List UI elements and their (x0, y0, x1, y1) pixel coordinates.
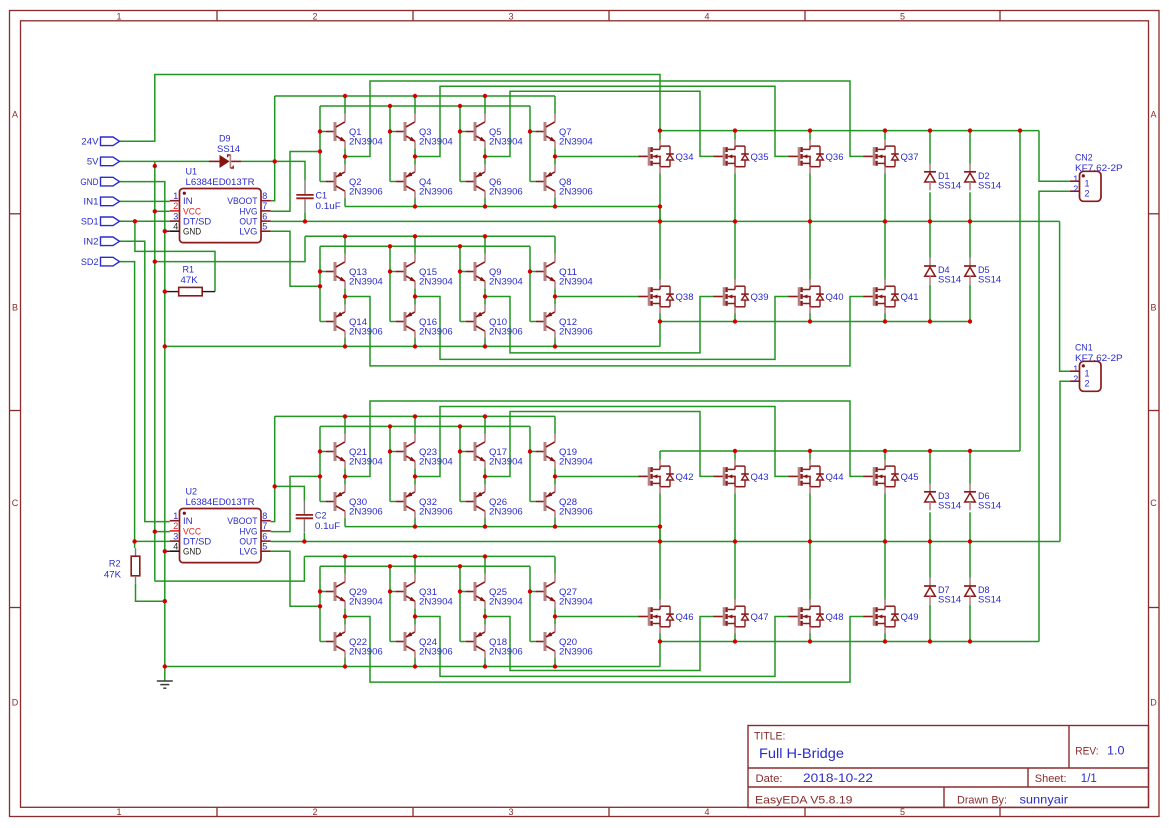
svg-text:2N3904: 2N3904 (489, 137, 523, 147)
wire net LVG-B and group4 base rail (271, 551, 530, 641)
wire net 5V / VBOOT-A (119, 96, 555, 581)
svg-text:A: A (12, 110, 18, 120)
transistor Q42 (N-MOSFET) (639, 459, 694, 493)
transistor Q37 (N-MOSFET) (864, 139, 919, 173)
svg-text:Q1: Q1 (349, 127, 361, 137)
svg-text:Q23: Q23 (419, 447, 437, 457)
svg-text:Q21: Q21 (349, 447, 367, 457)
transistor Q45 (N-MOSFET) (864, 459, 919, 493)
IC U1 L6384ED013TR (170, 167, 271, 243)
svg-text:Q38: Q38 (676, 292, 694, 302)
svg-text:DT/SD: DT/SD (183, 217, 212, 227)
transistor Q32 (PNP 2N3906) (390, 485, 453, 519)
transistor Q28 (PNP 2N3906) (530, 485, 593, 519)
transistor Q21 (NPN 2N3904) (320, 434, 383, 469)
svg-text:Q10: Q10 (489, 317, 507, 327)
svg-text:Q46: Q46 (676, 612, 694, 622)
svg-text:Q27: Q27 (559, 587, 577, 597)
wire net HVG-B and group3 base rail (271, 426, 530, 531)
capacitor C1 0.1uF (296, 180, 341, 212)
svg-text:SS14: SS14 (938, 595, 961, 605)
svg-text:Q13: Q13 (349, 267, 367, 277)
svg-text:D: D (1150, 698, 1157, 708)
transistor Q16 (PNP 2N3906) (390, 305, 453, 339)
transistor Q25 (NPN 2N3904) (460, 574, 523, 609)
svg-text:OUT: OUT (239, 537, 258, 547)
svg-text:SS14: SS14 (217, 144, 240, 154)
transistor Q23 (NPN 2N3904) (390, 434, 453, 469)
svg-text:B: B (12, 303, 18, 313)
transistor Q3 (NPN 2N3904) (390, 114, 453, 149)
svg-text:SD2: SD2 (81, 257, 99, 267)
svg-text:Q5: Q5 (489, 127, 501, 137)
svg-text:Q12: Q12 (559, 317, 577, 327)
svg-text:HVG: HVG (239, 526, 257, 536)
svg-text:2N3904: 2N3904 (349, 457, 383, 467)
svg-text:4: 4 (173, 541, 178, 551)
svg-text:SS14: SS14 (938, 500, 961, 510)
svg-text:sunnyair: sunnyair (1020, 793, 1069, 807)
wire net gate drives bank C (345, 401, 864, 477)
svg-text:4: 4 (704, 11, 709, 21)
svg-text:1: 1 (1073, 174, 1078, 184)
transistor Q46 (N-MOSFET) (639, 600, 694, 634)
svg-text:Q16: Q16 (419, 317, 437, 327)
svg-text:2N3904: 2N3904 (489, 597, 523, 607)
svg-text:IN: IN (183, 196, 193, 206)
transistor Q4 (PNP 2N3906) (390, 165, 453, 199)
svg-text:Q45: Q45 (901, 472, 919, 482)
svg-text:Q48: Q48 (826, 612, 844, 622)
svg-text:OUT: OUT (239, 217, 258, 227)
svg-text:2N3906: 2N3906 (489, 647, 523, 657)
connector CN1 KF7.62-2P (1070, 343, 1123, 392)
ground symbol (157, 667, 173, 689)
svg-text:Q39: Q39 (751, 292, 769, 302)
svg-text:Q20: Q20 (559, 637, 577, 647)
transistor Q17 (NPN 2N3904) (460, 434, 523, 469)
svg-text:3: 3 (508, 11, 513, 21)
transistor Q20 (PNP 2N3906) (530, 625, 593, 659)
svg-text:Q34: Q34 (676, 152, 694, 162)
svg-text:SS14: SS14 (978, 500, 1001, 510)
svg-text:Q3: Q3 (419, 127, 431, 137)
svg-text:Sheet:: Sheet: (1035, 773, 1067, 785)
svg-text:Q4: Q4 (419, 177, 431, 187)
transistor Q43 (N-MOSFET) (714, 459, 769, 493)
svg-text:1: 1 (173, 191, 178, 201)
transistor Q7 (NPN 2N3904) (530, 114, 593, 149)
svg-text:2N3904: 2N3904 (489, 457, 523, 467)
svg-text:Q14: Q14 (349, 317, 367, 327)
svg-text:2N3904: 2N3904 (349, 277, 383, 287)
svg-text:2N3906: 2N3906 (419, 507, 453, 517)
svg-text:2N3906: 2N3906 (349, 507, 383, 517)
svg-text:L6384ED013TR: L6384ED013TR (186, 177, 256, 187)
transistor Q41 (N-MOSFET) (864, 280, 919, 314)
svg-text:7: 7 (262, 521, 267, 531)
svg-text:47K: 47K (181, 275, 198, 285)
svg-text:D9: D9 (219, 134, 231, 144)
capacitor C2 0.1uF (296, 500, 341, 532)
svg-text:Q40: Q40 (826, 292, 844, 302)
svg-text:47K: 47K (104, 570, 121, 580)
input flag 24V (81, 137, 119, 147)
transistor Q29 (NPN 2N3904) (320, 574, 383, 609)
svg-text:U2: U2 (186, 487, 198, 497)
svg-text:D6: D6 (978, 491, 990, 501)
wire net GND (119, 182, 1069, 667)
transistor Q35 (N-MOSFET) (714, 139, 769, 173)
svg-text:CN2: CN2 (1075, 153, 1093, 163)
svg-text:2N3906: 2N3906 (489, 327, 523, 337)
svg-text:IN2: IN2 (83, 237, 98, 247)
svg-text:Q7: Q7 (559, 127, 571, 137)
svg-text:7: 7 (262, 201, 267, 211)
svg-text:2N3906: 2N3906 (559, 507, 593, 517)
svg-text:0.1uF: 0.1uF (316, 201, 342, 211)
svg-text:Q44: Q44 (826, 472, 844, 482)
svg-text:3: 3 (173, 531, 178, 541)
wire net 24V (119, 75, 1069, 484)
svg-text:B: B (1150, 303, 1156, 313)
svg-text:TITLE:: TITLE: (754, 731, 785, 743)
diode D8 (SS14 schottky) (964, 578, 1001, 605)
transistor Q38 (N-MOSFET) (639, 280, 694, 314)
svg-text:SS14: SS14 (978, 595, 1001, 605)
svg-text:2N3906: 2N3906 (349, 647, 383, 657)
wire net HVG-A and group1 base rail (271, 106, 530, 211)
svg-text:R2: R2 (109, 559, 121, 569)
diode D1 (SS14 schottky) (924, 164, 961, 191)
svg-text:1: 1 (116, 11, 121, 21)
svg-text:2N3906: 2N3906 (489, 507, 523, 517)
transistor Q14 (PNP 2N3906) (320, 305, 383, 339)
svg-text:EasyEDA V5.8.19: EasyEDA V5.8.19 (755, 794, 853, 806)
svg-text:5: 5 (262, 541, 267, 551)
svg-text:D8: D8 (978, 585, 990, 595)
diode D9 (SS14 schottky) (209, 134, 241, 168)
transistor Q12 (PNP 2N3906) (530, 305, 593, 339)
wire net IN2 (119, 241, 169, 521)
svg-text:3: 3 (508, 807, 513, 817)
svg-text:Date:: Date: (756, 773, 783, 785)
svg-text:Q17: Q17 (489, 447, 507, 457)
svg-text:2N3904: 2N3904 (419, 277, 453, 287)
title block (748, 726, 1149, 808)
transistor Q34 (N-MOSFET) (639, 139, 694, 173)
svg-text:SD1: SD1 (81, 217, 99, 227)
svg-text:2018-10-22: 2018-10-22 (803, 773, 873, 785)
transistor Q36 (N-MOSFET) (789, 139, 844, 173)
transistor Q1 (NPN 2N3904) (320, 114, 383, 149)
wire net VBOOT-B (271, 416, 555, 541)
input flag SD1 (81, 217, 120, 227)
svg-text:LVG: LVG (239, 547, 257, 557)
wire net gate drives bank B (345, 297, 864, 366)
svg-text:D4: D4 (938, 265, 950, 275)
svg-text:2N3906: 2N3906 (559, 327, 593, 337)
svg-text:Q15: Q15 (419, 267, 437, 277)
svg-text:5: 5 (900, 11, 905, 21)
transistor Q30 (PNP 2N3906) (320, 485, 383, 519)
svg-text:2: 2 (173, 521, 178, 531)
svg-text:2: 2 (1073, 184, 1078, 194)
svg-text:2N3906: 2N3906 (419, 187, 453, 197)
svg-text:2: 2 (312, 807, 317, 817)
svg-text:Q32: Q32 (419, 497, 437, 507)
svg-text:Q31: Q31 (419, 587, 437, 597)
svg-text:Q37: Q37 (901, 152, 919, 162)
svg-text:Q8: Q8 (559, 177, 571, 187)
svg-text:GND: GND (183, 547, 202, 557)
svg-text:Q30: Q30 (349, 497, 367, 507)
svg-text:D1: D1 (938, 171, 950, 181)
wire net OUT-A (phase A) (271, 173, 1070, 371)
transistor Q6 (PNP 2N3906) (460, 165, 523, 199)
svg-text:2N3904: 2N3904 (419, 597, 453, 607)
svg-text:Q19: Q19 (559, 447, 577, 457)
transistor Q18 (PNP 2N3906) (460, 625, 523, 659)
svg-text:2N3904: 2N3904 (349, 137, 383, 147)
svg-text:3: 3 (173, 211, 178, 221)
transistor Q13 (NPN 2N3904) (320, 254, 383, 289)
transistor Q49 (N-MOSFET) (864, 600, 919, 634)
svg-text:2: 2 (1073, 374, 1078, 384)
svg-text:2N3906: 2N3906 (559, 647, 593, 657)
diode D5 (SS14 schottky) (964, 258, 1001, 285)
diode D3 (SS14 schottky) (924, 484, 961, 511)
svg-text:HVG: HVG (239, 206, 257, 216)
svg-text:Q28: Q28 (559, 497, 577, 507)
svg-text:DT/SD: DT/SD (183, 537, 212, 547)
svg-text:SS14: SS14 (978, 275, 1001, 285)
svg-text:Q35: Q35 (751, 152, 769, 162)
transistor Q9 (NPN 2N3904) (460, 254, 523, 289)
svg-text:2N3904: 2N3904 (489, 277, 523, 287)
diode D4 (SS14 schottky) (924, 258, 961, 285)
svg-text:IN1: IN1 (83, 197, 98, 207)
svg-text:6: 6 (262, 211, 267, 221)
svg-text:5: 5 (262, 221, 267, 231)
svg-text:CN1: CN1 (1075, 343, 1093, 353)
transistor Q15 (NPN 2N3904) (390, 254, 453, 289)
svg-text:1: 1 (1085, 369, 1090, 379)
transistor Q47 (N-MOSFET) (714, 600, 769, 634)
connector CN2 KF7.62-2P (1070, 153, 1123, 202)
wire net SD1 with R1 branch (119, 221, 215, 291)
IC U2 L6384ED013TR (170, 487, 271, 563)
wire net gate drives bank A (345, 81, 864, 157)
svg-text:Q36: Q36 (826, 152, 844, 162)
transistor Q5 (NPN 2N3904) (460, 114, 523, 149)
svg-text:2N3904: 2N3904 (349, 597, 383, 607)
svg-text:2N3904: 2N3904 (419, 457, 453, 467)
wire net gate drives bank D (345, 617, 864, 683)
svg-text:1: 1 (116, 807, 121, 817)
svg-text:SS14: SS14 (938, 275, 961, 285)
svg-text:C1: C1 (316, 191, 328, 201)
svg-text:A: A (1150, 110, 1156, 120)
input flag IN1 (83, 197, 119, 207)
transistor Q19 (NPN 2N3904) (530, 434, 593, 469)
svg-text:REV:: REV: (1075, 745, 1098, 757)
svg-text:D3: D3 (938, 491, 950, 501)
svg-text:R1: R1 (183, 265, 195, 275)
svg-text:VCC: VCC (183, 526, 202, 536)
diode D7 (SS14 schottky) (924, 578, 961, 605)
svg-text:SS14: SS14 (978, 180, 1001, 190)
resistor R1 47K (165, 265, 215, 296)
svg-text:U1: U1 (186, 167, 198, 177)
svg-text:2: 2 (1085, 379, 1090, 389)
input flag IN2 (83, 237, 119, 247)
svg-text:VBOOT: VBOOT (227, 196, 258, 206)
transistor Q2 (PNP 2N3906) (320, 165, 383, 199)
svg-text:2N3906: 2N3906 (489, 187, 523, 197)
svg-text:Q24: Q24 (419, 637, 437, 647)
input flag GND (80, 177, 119, 187)
svg-text:VCC: VCC (183, 206, 202, 216)
transistor Q48 (N-MOSFET) (789, 600, 844, 634)
transistor Q11 (NPN 2N3904) (530, 254, 593, 289)
svg-text:D7: D7 (938, 585, 950, 595)
svg-text:GND: GND (183, 227, 202, 237)
transistor Q39 (N-MOSFET) (714, 280, 769, 314)
input flag 5V (87, 157, 120, 167)
svg-text:8: 8 (262, 191, 267, 201)
svg-text:2N3904: 2N3904 (559, 277, 593, 287)
transistor Q31 (NPN 2N3904) (390, 574, 453, 609)
svg-text:1: 1 (173, 511, 178, 521)
svg-text:2: 2 (173, 201, 178, 211)
svg-text:0.1uF: 0.1uF (315, 521, 341, 531)
transistor Q10 (PNP 2N3906) (460, 305, 523, 339)
svg-text:Q29: Q29 (349, 587, 367, 597)
svg-text:2N3906: 2N3906 (349, 187, 383, 197)
svg-text:24V: 24V (81, 137, 98, 147)
wire net OUT-B (phase B) (271, 381, 1070, 599)
svg-text:C2: C2 (315, 511, 327, 521)
svg-text:Q25: Q25 (489, 587, 507, 597)
svg-text:L6384ED013TR: L6384ED013TR (186, 497, 256, 507)
svg-text:1: 1 (1085, 179, 1090, 189)
diode D2 (SS14 schottky) (964, 164, 1001, 191)
transistor Q40 (N-MOSFET) (789, 280, 844, 314)
svg-text:Q43: Q43 (751, 472, 769, 482)
transistor Q22 (PNP 2N3906) (320, 625, 383, 659)
svg-text:Q6: Q6 (489, 177, 501, 187)
svg-text:2: 2 (1085, 189, 1090, 199)
diode D6 (SS14 schottky) (964, 484, 1001, 511)
svg-text:Q26: Q26 (489, 497, 507, 507)
svg-text:2N3904: 2N3904 (419, 137, 453, 147)
svg-text:2N3904: 2N3904 (559, 457, 593, 467)
svg-text:Q41: Q41 (901, 292, 919, 302)
svg-text:2N3906: 2N3906 (559, 187, 593, 197)
svg-text:2N3906: 2N3906 (419, 327, 453, 337)
svg-text:1.0: 1.0 (1107, 746, 1125, 758)
svg-text:Full H-Bridge: Full H-Bridge (759, 745, 844, 761)
svg-text:Q49: Q49 (901, 612, 919, 622)
svg-text:IN: IN (183, 516, 193, 526)
wire net LVG-A and group2 base rail (271, 231, 530, 321)
svg-text:Q9: Q9 (489, 267, 501, 277)
svg-text:5: 5 (900, 807, 905, 817)
wire net SD2 with R2 branch (119, 262, 169, 602)
svg-text:2N3906: 2N3906 (419, 647, 453, 657)
svg-text:6: 6 (262, 531, 267, 541)
svg-text:Q18: Q18 (489, 637, 507, 647)
svg-text:4: 4 (704, 807, 709, 817)
transistor Q24 (PNP 2N3906) (390, 625, 453, 659)
svg-text:D2: D2 (978, 171, 990, 181)
svg-text:GND: GND (80, 177, 99, 187)
transistor Q26 (PNP 2N3906) (460, 485, 523, 519)
transistor Q27 (NPN 2N3904) (530, 574, 593, 609)
input flag SD2 (81, 257, 120, 267)
svg-text:C: C (12, 498, 19, 508)
svg-text:2N3904: 2N3904 (559, 137, 593, 147)
svg-text:Q47: Q47 (751, 612, 769, 622)
svg-text:Q42: Q42 (676, 472, 694, 482)
resistor R2 47K (104, 548, 140, 584)
svg-text:VBOOT: VBOOT (227, 516, 258, 526)
svg-text:1/1: 1/1 (1081, 773, 1097, 785)
svg-text:1: 1 (1073, 364, 1078, 374)
svg-text:C: C (1150, 498, 1157, 508)
svg-text:4: 4 (173, 221, 178, 231)
wire net IN1 (119, 200, 169, 202)
svg-text:SS14: SS14 (938, 180, 961, 190)
svg-text:LVG: LVG (239, 227, 257, 237)
svg-text:D: D (12, 698, 19, 708)
svg-text:Q2: Q2 (349, 177, 361, 187)
wire pair output verticals (emitter junctions) (345, 148, 555, 624)
svg-text:2: 2 (312, 11, 317, 21)
transistor Q8 (PNP 2N3906) (530, 165, 593, 199)
svg-text:Q22: Q22 (349, 637, 367, 647)
svg-text:Drawn By:: Drawn By: (957, 794, 1007, 806)
svg-text:8: 8 (262, 511, 267, 521)
svg-text:Q11: Q11 (559, 267, 577, 277)
svg-text:5V: 5V (87, 157, 99, 167)
svg-text:2N3904: 2N3904 (559, 597, 593, 607)
svg-text:D5: D5 (978, 265, 990, 275)
transistor Q44 (N-MOSFET) (789, 459, 844, 493)
svg-text:2N3906: 2N3906 (349, 327, 383, 337)
